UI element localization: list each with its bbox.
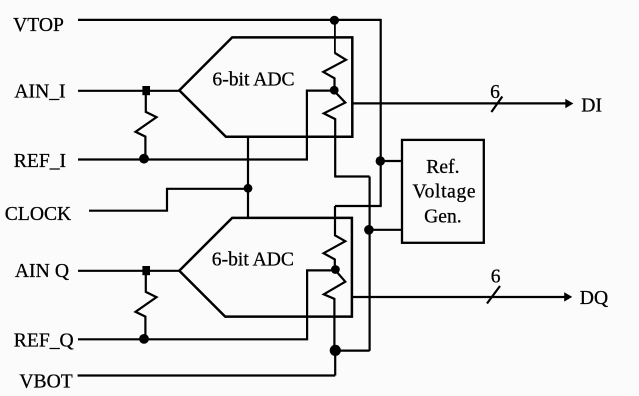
svg-text:VTOP: VTOP — [13, 15, 64, 36]
bus slash DQ — [487, 286, 500, 304]
bus slash DI — [491, 97, 502, 113]
wire AIN_Q horizontal — [78, 270, 180, 272]
node AIN_Q junction — [142, 266, 150, 275]
node ref box upper link — [376, 156, 385, 165]
wire main vertical A — [369, 177, 371, 351]
arrow DQ head — [564, 292, 572, 301]
node VBOT junction — [330, 345, 341, 356]
wire VTOP right vertical drop — [380, 19, 382, 206]
node REF_Q junction — [139, 334, 149, 344]
wire to Ref box upper — [380, 160, 402, 162]
wire to Ref box lower — [369, 229, 403, 231]
wire crossing jog at y=206 — [335, 205, 382, 207]
wire VBOT jog — [335, 350, 369, 352]
svg-text:CLOCK: CLOCK — [5, 204, 71, 225]
node chain1 midpoint — [330, 86, 339, 95]
svg-text:Gen.: Gen. — [424, 206, 462, 227]
resistor R5 chain2 upper — [324, 206, 346, 269]
wire VTOP horizontal — [78, 19, 381, 21]
resistor R6 chain2 lower — [324, 270, 346, 350]
wire AIN_I horizontal — [78, 90, 180, 92]
resistor R4 chain1 lower — [324, 91, 346, 177]
svg-text:6: 6 — [490, 82, 500, 103]
svg-text:DQ: DQ — [580, 288, 608, 309]
svg-text:DI: DI — [581, 95, 602, 116]
svg-text:AIN_I: AIN_I — [14, 81, 65, 102]
svg-text:VBOT: VBOT — [19, 371, 72, 392]
op-amp block 6-bit ADC U2 pentagon — [179, 218, 352, 317]
node AIN_I junction — [142, 86, 150, 95]
svg-text:6-bit ADC: 6-bit ADC — [212, 249, 294, 270]
wire VBOT horizontal — [78, 374, 336, 376]
wire chain1 bottom jog — [334, 175, 369, 177]
svg-text:Ref.: Ref. — [426, 157, 459, 178]
resistor R3 chain1 upper — [323, 53, 346, 90]
svg-text:6-bit ADC: 6-bit ADC — [212, 70, 294, 91]
node CLOCK junction — [244, 184, 253, 193]
svg-text:REF_I: REF_I — [14, 151, 66, 172]
svg-text:Voltage: Voltage — [412, 182, 476, 203]
wire chain1 top lead from VTOP — [334, 20, 336, 53]
node REF_I junction — [139, 154, 149, 164]
wire CLOCK stepped — [89, 189, 248, 211]
arrow DI head — [565, 99, 573, 108]
wire REF_Q horizontal with rise to chain2 midpoint — [78, 270, 335, 339]
op-amp block 6-bit ADC U1 pentagon — [179, 37, 352, 136]
resistor R1 left ladder top (AIN_I to REF_I) — [136, 90, 157, 158]
wire DI output — [352, 102, 566, 104]
svg-text:6: 6 — [491, 266, 501, 287]
node chain2 midpoint — [331, 265, 340, 274]
wire REF_I horizontal with rise to chain1 midpoint — [78, 91, 335, 160]
box Ref. Voltage Gen. — [402, 140, 484, 243]
svg-text:Q: Q — [55, 261, 69, 282]
node ref box lower link — [364, 225, 374, 235]
svg-text:AIN: AIN — [15, 261, 50, 282]
svg-text:REF_Q: REF_Q — [14, 330, 74, 351]
resistor R2 left ladder bottom (AIN_Q to REF_Q) — [136, 270, 157, 338]
wire VBOT vertical — [334, 350, 336, 375]
wire CLOCK vertical between ADCs — [247, 137, 249, 218]
node VTOP junction — [330, 16, 339, 25]
wire DQ output — [352, 296, 565, 298]
